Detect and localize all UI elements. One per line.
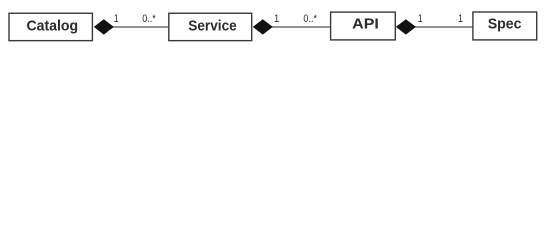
class API (331, 12, 396, 40)
class Spec (473, 12, 537, 40)
wire Catalog-Service (112, 26, 169, 28)
composition diamond at Service (253, 19, 273, 34)
svg-text:Catalog: Catalog (26, 18, 78, 34)
wire API-Spec (414, 26, 473, 28)
class Catalog (9, 13, 92, 40)
svg-text:Service: Service (188, 18, 237, 35)
svg-text:1: 1 (114, 13, 119, 25)
svg-text:API: API (352, 16, 379, 32)
class Service (169, 13, 252, 40)
svg-text:1: 1 (418, 13, 423, 25)
svg-text:1: 1 (274, 13, 279, 25)
svg-text:Spec: Spec (488, 16, 522, 32)
composition diamond at API (396, 19, 416, 34)
svg-text:1: 1 (458, 13, 463, 25)
svg-text:0..*: 0..* (303, 13, 317, 25)
composition diamond at Catalog (94, 19, 114, 34)
wire Service-API (271, 26, 331, 28)
UML composition diagram: Catalog-Service-API-Spec (0, 0, 550, 54)
svg-text:0..*: 0..* (142, 13, 156, 25)
